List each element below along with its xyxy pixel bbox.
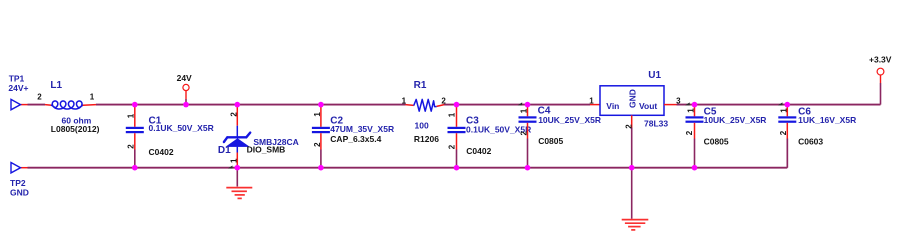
svg-text:10UK_25V_X5R: 10UK_25V_X5R: [538, 115, 601, 125]
svg-text:1: 1: [687, 108, 696, 113]
junction top rail at C6: [778, 102, 783, 105]
resistor R1: [406, 80, 445, 144]
label C2: [330, 116, 394, 144]
junction bottom rail at C1: [132, 165, 138, 171]
capacitor C2: [312, 105, 330, 168]
svg-text:1UK_16V_X5R: 1UK_16V_X5R: [798, 115, 856, 125]
test point TP1: [8, 74, 28, 110]
svg-text:U1: U1: [648, 70, 661, 81]
svg-text:1: 1: [402, 97, 407, 106]
svg-text:C0402: C0402: [466, 146, 491, 156]
svg-text:100: 100: [415, 120, 429, 130]
svg-text:78L33: 78L33: [644, 119, 668, 129]
junction bottom rail at C5: [692, 165, 698, 171]
junction bottom rail at C4: [525, 165, 531, 171]
junction top rail at C4: [518, 102, 523, 105]
svg-text:1: 1: [90, 92, 95, 101]
ground symbol at D1: [226, 168, 252, 199]
svg-text:GND: GND: [10, 187, 29, 197]
svg-text:2: 2: [625, 124, 634, 129]
svg-text:Vout: Vout: [639, 101, 657, 111]
regulator U1 78L33: [590, 70, 677, 219]
svg-text:10UK_25V_X5R: 10UK_25V_X5R: [704, 115, 767, 125]
capacitor C1: [126, 105, 144, 168]
svg-text:C0805: C0805: [704, 136, 729, 146]
svg-text:CAP_6.3x5.4: CAP_6.3x5.4: [330, 134, 381, 144]
capacitor C3: [447, 105, 465, 168]
svg-text:2: 2: [779, 130, 788, 135]
net 24V: [177, 73, 192, 104]
wire top rail R1 to U1: [444, 104, 590, 106]
svg-text:R1: R1: [414, 80, 427, 91]
junction bottom rail at C2: [318, 165, 324, 171]
svg-text:2: 2: [127, 144, 136, 149]
svg-text:47UM_35V_X5R: 47UM_35V_X5R: [330, 124, 394, 134]
junction top rail at C5: [685, 102, 690, 105]
svg-text:+3.3V: +3.3V: [869, 55, 892, 65]
svg-text:C0805: C0805: [538, 136, 563, 146]
inductor L1: [45, 80, 100, 134]
svg-text:D1: D1: [218, 145, 231, 156]
svg-text:L1: L1: [50, 80, 62, 91]
label C4: [538, 106, 601, 147]
svg-text:R1206: R1206: [414, 134, 439, 144]
label C6: [798, 107, 856, 147]
net +3.3V: [869, 55, 892, 75]
junction bottom rail at D1: [228, 166, 233, 169]
svg-text:1: 1: [780, 108, 789, 113]
wire top rail TP1 to L1: [21, 104, 46, 106]
junction top rail at D1: [235, 102, 241, 108]
TVS diode D1: [224, 105, 250, 168]
svg-text:C0603: C0603: [798, 136, 823, 146]
ground symbol at U1: [622, 220, 649, 230]
junction top rail at C3: [454, 102, 460, 108]
svg-text:2: 2: [229, 112, 238, 117]
svg-text:2: 2: [37, 92, 42, 101]
test point TP2: [10, 163, 29, 198]
svg-text:1: 1: [589, 96, 594, 105]
svg-text:1: 1: [229, 158, 238, 163]
svg-text:DIO_SMB: DIO_SMB: [247, 145, 286, 155]
label D1: [218, 137, 299, 156]
wire top rail U1 to +3.3V riser: [677, 75, 881, 104]
svg-text:GND: GND: [627, 89, 637, 108]
svg-text:Vin: Vin: [606, 101, 619, 111]
svg-text:TP2: TP2: [10, 178, 26, 188]
svg-text:1: 1: [127, 113, 136, 118]
junction bottom rail at U1 GND: [629, 165, 635, 171]
junction top rail at C2: [318, 102, 324, 108]
capacitor C5: [685, 105, 704, 168]
junction top rail at C1: [132, 102, 138, 108]
svg-text:1: 1: [313, 112, 322, 117]
svg-text:24V: 24V: [177, 73, 192, 83]
svg-text:2: 2: [313, 142, 322, 147]
junction top rail at 24V: [183, 102, 189, 108]
label C3: [466, 115, 531, 156]
svg-text:0.1UK_50V_X5R: 0.1UK_50V_X5R: [149, 123, 214, 133]
wire bottom rail TP2 to C6: [21, 139, 788, 168]
junction bottom rail at C3: [454, 165, 460, 171]
capacitor C4: [519, 105, 537, 168]
svg-text:C0402: C0402: [149, 147, 174, 157]
svg-text:2: 2: [685, 130, 694, 135]
capacitor C6: [778, 105, 796, 168]
svg-text:1: 1: [447, 112, 456, 117]
svg-text:2: 2: [448, 144, 457, 149]
svg-text:2: 2: [520, 131, 529, 136]
svg-text:2: 2: [441, 96, 446, 105]
label C1: [149, 115, 214, 157]
svg-text:3: 3: [676, 96, 681, 105]
wire top rail L1 to R1: [96, 104, 406, 106]
svg-text:L0805(2012): L0805(2012): [51, 124, 100, 134]
svg-text:24V+: 24V+: [8, 83, 28, 93]
label C5: [704, 107, 767, 147]
svg-text:1: 1: [520, 108, 529, 113]
